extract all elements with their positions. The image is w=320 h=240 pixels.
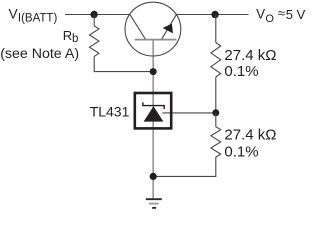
ground [146,199,162,208]
node D: junction dot divider midpoint [212,109,219,116]
wire TL431 reference to divider [163,112,216,114]
svg-text:I(BATT): I(BATT) [18,13,58,25]
label VI(BATT) [9,6,58,24]
svg-text:V: V [297,7,306,22]
U1 TL431 cathode bar [143,102,164,109]
wire top left from VI(BATT) [65,14,130,16]
transistor Q1 collector lead [130,14,146,39]
node B: junction dot at transistor base [150,68,157,75]
svg-text:0.1%: 0.1% [224,144,258,161]
resistor R1 27.4k (zigzag) [211,43,221,78]
svg-text:V: V [9,6,18,21]
svg-text:V: V [256,6,265,21]
op-amp U1 TL431 box [135,93,171,128]
node E: junction dot at TL431 anode/ground [150,173,157,180]
resistor Rb (zigzag) [90,26,99,57]
label R1 value 27.4 kOhm 0.1% [224,47,276,80]
resistor R2 27.4k (zigzag) [211,127,221,157]
svg-text:b: b [72,33,78,45]
transistor Q1 base bar [135,39,177,41]
svg-text:27.4 kΩ: 27.4 kΩ [224,47,276,64]
wire top right to VO [176,14,248,16]
transistor Q1 emitter arrow [163,24,173,34]
svg-text:0.1%: 0.1% [224,63,258,80]
svg-text:TL431: TL431 [90,103,130,119]
svg-text:(see Note A): (see Note A) [0,46,79,62]
wire Rb bottom lead to base junction [94,56,153,71]
wire R1 bottom lead [215,77,217,113]
svg-text:5: 5 [286,7,293,22]
wire R2 top lead [215,113,217,127]
wire R1 top lead [215,15,217,43]
svg-text:O: O [265,13,274,25]
wire R2 bottom lead and bottom return [153,157,216,176]
node C: junction dot at VO [211,11,218,18]
label Rb [63,28,79,45]
transistor Q1 circle [125,2,181,56]
transistor Q1 emitter lead [162,14,177,39]
label VO approx 5V [256,6,306,25]
U1 TL431 anode triangle [144,106,164,121]
wire base/cathode/anode vertical (gray) [152,40,154,199]
node A: junction dot at VI/Rb [90,11,97,18]
wire Rb top lead [93,15,95,26]
svg-text:27.4 kΩ: 27.4 kΩ [224,126,276,143]
svg-text:R: R [63,28,72,43]
label R2 value 27.4 kOhm 0.1% [224,126,276,160]
svg-text:≈: ≈ [278,6,285,21]
